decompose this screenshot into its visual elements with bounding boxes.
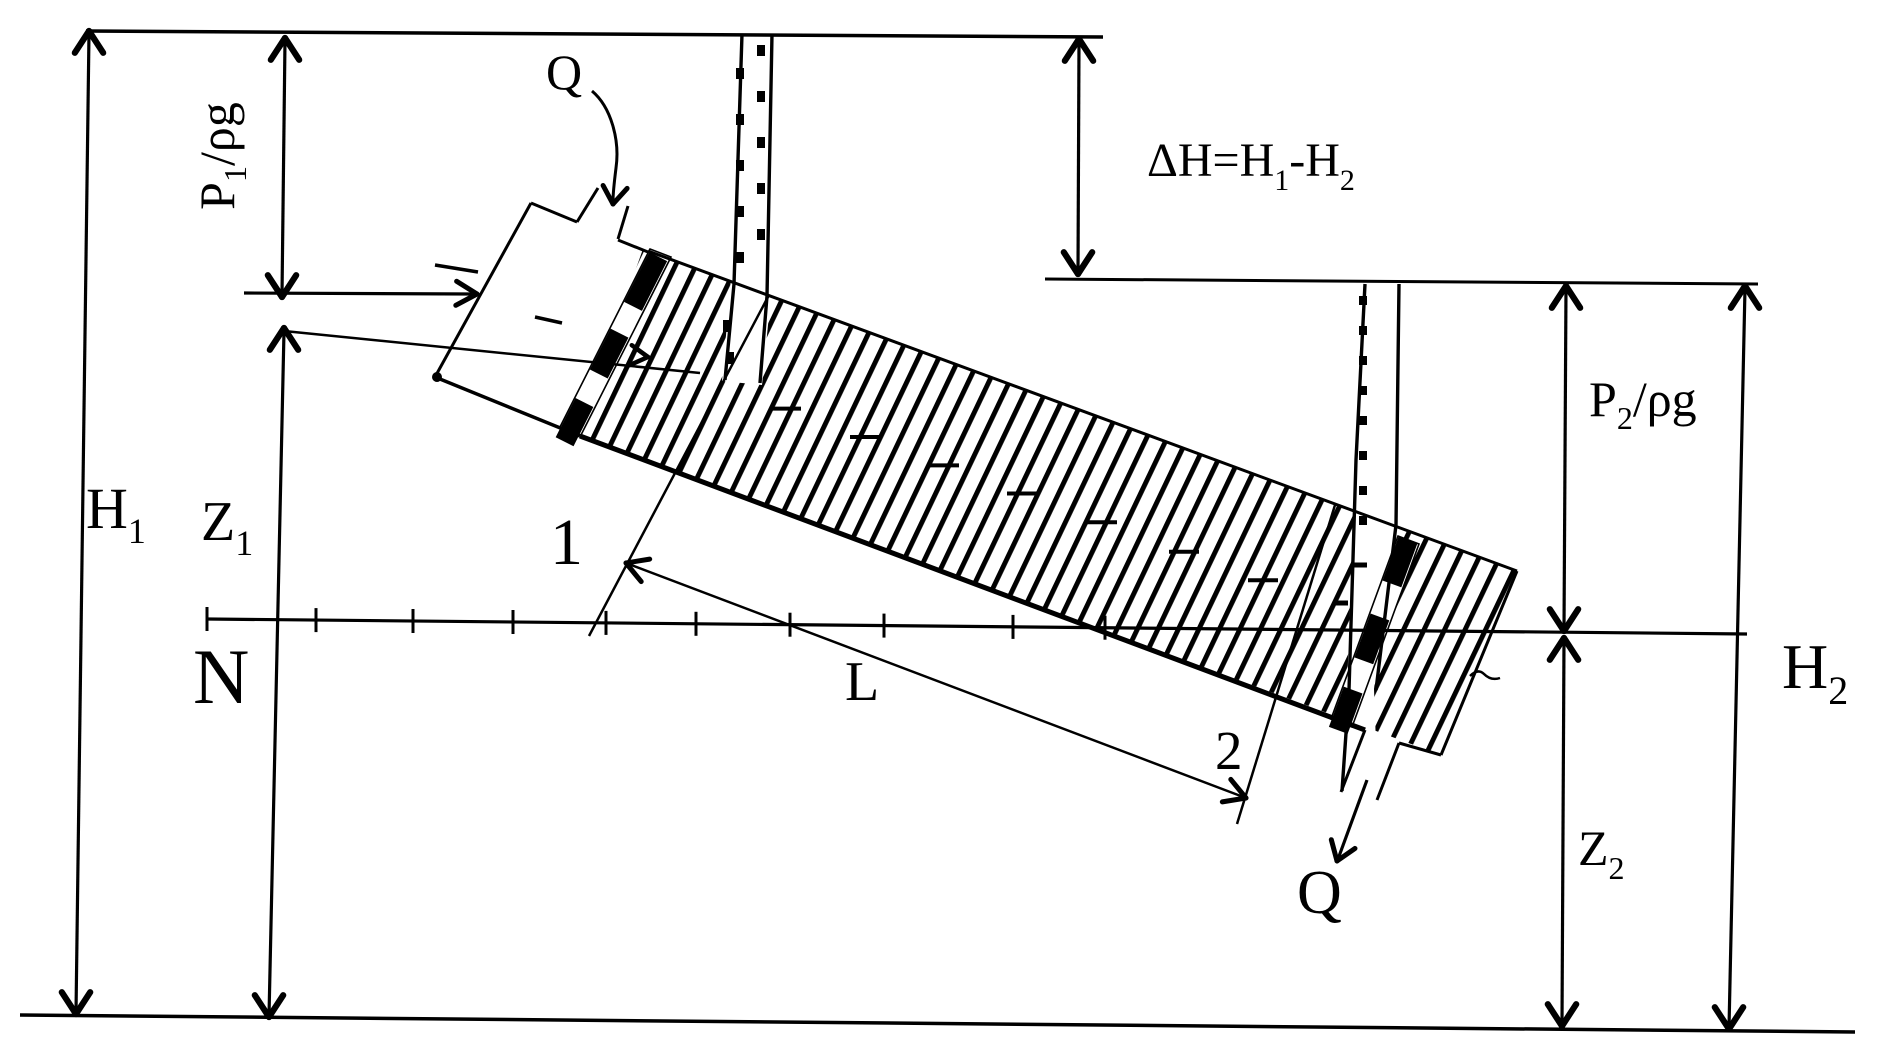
svg-text:P1/ρg: P1/ρg [189,102,253,210]
svg-text:Q: Q [546,44,582,100]
outlet screen (perforated plate) [1331,536,1419,727]
svg-text:Q: Q [1297,859,1342,927]
water level 1 line [86,31,1103,37]
section line 1 [589,295,769,636]
svg-text:Z2: Z2 [1578,820,1625,886]
svg-text:H2: H2 [1782,631,1848,713]
Q inflow curved arrow [592,91,617,201]
L dimension line [626,563,1246,798]
svg-text:1: 1 [550,506,583,579]
inlet chamber box [531,203,577,222]
outlet box right edge [1441,571,1517,755]
svg-text:H1: H1 [86,476,146,551]
section line 2 [1237,505,1335,824]
inlet screen (perforated plate) [560,249,671,435]
water level 2 line [1045,279,1758,284]
ground bottom line [20,1015,1855,1032]
delta-H dimension line [1078,42,1079,272]
soil sample hatched region [576,249,1517,755]
sample tube bottom edge [580,436,1365,730]
inlet pipe walls [577,188,598,222]
svg-text:Z1: Z1 [201,491,253,563]
tube axis dashes [771,407,801,411]
piezometer tube 2 dashed column [1359,296,1367,305]
H1 dimension line [76,33,89,1013]
sample tube top edge [648,251,1517,571]
piezometer tube 1 walls [725,34,742,380]
svg-text:2: 2 [1215,720,1243,781]
P2/rho-g dimension line [1564,288,1566,629]
svg-text:N: N [193,633,249,720]
piezometer tube 1 white cut [722,278,771,385]
label P1/rho-g rotated [189,102,253,210]
piezometer tube 2 white cut [1339,500,1400,799]
piezometer tube 1 dashed water column [757,45,765,56]
P1/rho-g dimension line [282,40,285,295]
piezometer tube 2 walls [1342,284,1365,791]
break squiggle on right edge [1470,671,1500,678]
water level pointer arrow [244,293,472,294]
svg-text:ΔH=H1-H2: ΔH=H1-H2 [1147,134,1355,197]
outlet pipe walls [1341,730,1365,792]
H2 dimension line [1729,288,1745,1028]
outlet box bottom edge [1399,743,1441,755]
svg-text:L: L [845,651,879,713]
inlet box axis dashes [435,265,478,272]
Z2 dimension line [1562,640,1564,1024]
Z1 leader line to point 1 [284,331,700,373]
svg-text:P2/ρg: P2/ρg [1589,371,1697,436]
Q outflow arrow [1338,780,1367,859]
datum line N [207,619,1747,634]
Z1 dimension line [269,331,284,1016]
